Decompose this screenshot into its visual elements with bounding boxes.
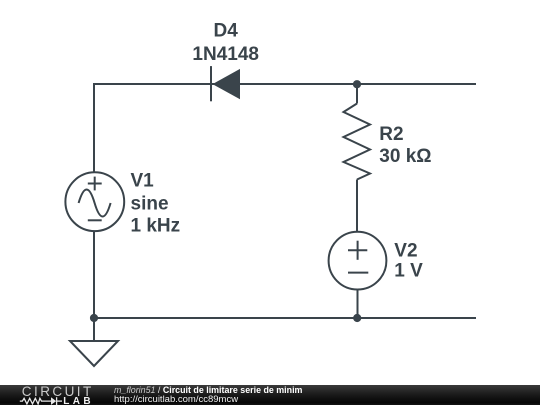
wire right vertical top [356,84,358,104]
wire resistor to V2 [356,180,358,232]
wire left vertical lower [93,231,95,318]
node junction bottom left [90,314,98,322]
svg-text:V2: V2 [394,240,417,261]
wire ground stub [93,318,95,341]
svg-text:1 V: 1 V [394,260,423,281]
footer bar [0,385,540,405]
svg-text:30 kΩ: 30 kΩ [379,146,431,167]
svg-text:sine: sine [131,194,169,215]
diode D4 triangle [213,69,241,99]
wire left vertical upper [93,83,95,172]
svg-text:R2: R2 [379,124,403,145]
ground [70,341,118,366]
wire top horizontal [94,83,476,85]
svg-text:LAB: LAB [63,396,94,405]
voltage source V1 [65,172,124,231]
node junction bottom right [353,314,361,322]
logo wire resistor diode [20,397,62,405]
resistor R2 [344,104,371,180]
svg-text:D4: D4 [214,21,239,42]
svg-text:1N4148: 1N4148 [192,44,259,65]
svg-text:http://circuitlab.com/cc89mcw: http://circuitlab.com/cc89mcw [114,394,238,405]
diode D4 [210,66,212,101]
svg-text:1 kHz: 1 kHz [131,216,181,237]
node junction top right [353,80,361,88]
voltage source V2 [329,232,387,290]
wire bottom horizontal [93,317,476,319]
wire V2 to bottom [357,290,359,319]
svg-text:V1: V1 [131,171,155,192]
